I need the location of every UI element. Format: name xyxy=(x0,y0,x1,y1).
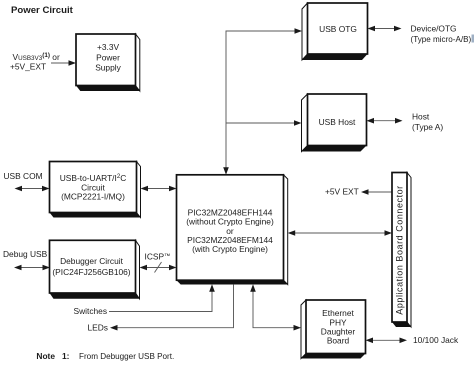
svg-text:Power Circuit: Power Circuit xyxy=(11,5,74,16)
arrowhead toward USB OTG xyxy=(368,26,376,32)
svg-text:Device/OTG: Device/OTG xyxy=(411,24,457,34)
svg-text:LEDs: LEDs xyxy=(88,323,108,333)
svg-text:USB OTG: USB OTG xyxy=(319,24,357,34)
svg-text:Debug USB: Debug USB xyxy=(3,249,48,259)
svg-text:10/100 Jack: 10/100 Jack xyxy=(413,335,459,345)
svg-text:Application Board Connector: Application Board Connector xyxy=(394,185,404,314)
block: +3.3V Power Supply xyxy=(76,34,140,91)
svg-text:VUSB3V3(1) or: VUSB3V3(1) or xyxy=(13,52,60,62)
svg-text:USB Host: USB Host xyxy=(319,117,356,127)
wire: trunk from MCU top to USB OTG / USB Host xyxy=(226,31,296,168)
arrowhead up into MCU bottom (ethernet) xyxy=(250,284,256,292)
block: Application Board Connector xyxy=(392,173,411,328)
arrowhead into MCU left xyxy=(169,186,177,192)
wire: MCU to Application Board Connector xyxy=(293,232,387,234)
svg-text:Debugger Circuit: Debugger Circuit xyxy=(60,256,124,266)
block: Debugger Circuit (PIC24FJ256GB106) xyxy=(50,240,140,298)
svg-text:Switches: Switches xyxy=(74,306,108,316)
wire: USB Host to Host connector xyxy=(372,120,397,122)
svg-text:Board: Board xyxy=(327,336,350,346)
wire: input to power supply xyxy=(51,62,70,64)
wire: UART circuit to MCU xyxy=(146,188,171,190)
wire: LEDs from MCU bottom xyxy=(116,284,234,328)
note: Note 1: From Debugger USB Port. xyxy=(36,351,174,361)
svg-text:(Type A): (Type A) xyxy=(412,122,443,132)
arrowhead into MCU left lower xyxy=(169,265,177,271)
label: Device/OTG (Type micro-A/B) xyxy=(411,24,474,44)
wire: MCU to Ethernet PHY board xyxy=(253,291,296,328)
arrowhead toward USB COM xyxy=(15,186,23,192)
arrowhead into Ethernet PHY left xyxy=(294,325,302,331)
svg-text:Power: Power xyxy=(96,52,120,62)
wire: ICSP bus debugger to MCU xyxy=(145,262,171,273)
arrowhead toward MCU right xyxy=(288,230,296,236)
svg-text:(PIC24FJ256GB106): (PIC24FJ256GB106) xyxy=(52,267,130,277)
block: USB-to-UART/I2C Circuit (MCP2221-I/MQ) xyxy=(50,162,141,218)
block: MCU PIC32MZ2048EFH144 / PIC32MZ2048EFM144 xyxy=(177,175,288,285)
wire: +5V EXT from connector xyxy=(366,191,392,193)
wire: Ethernet PHY to 10/100 Jack xyxy=(371,339,402,341)
arrowhead down into MCU top xyxy=(223,167,229,175)
svg-text:ICSP™: ICSP™ xyxy=(145,252,171,262)
arrowhead toward 10/100 Jack label xyxy=(400,338,408,344)
svg-text:+5V_EXT: +5V_EXT xyxy=(10,62,46,72)
label: Host (Type A) xyxy=(412,112,443,132)
block: USB Host xyxy=(302,94,367,152)
arrowhead toward +5V EXT label xyxy=(361,189,369,195)
wire: Switches to MCU bottom xyxy=(109,291,212,312)
arrowhead toward LEDs label xyxy=(110,325,118,331)
label: VUSB3V3(1) or / +5V_EXT xyxy=(10,52,60,72)
svg-text:Note: Note xyxy=(36,351,55,361)
block: USB OTG xyxy=(302,3,368,60)
arrowhead into connector xyxy=(385,230,393,236)
arrowhead into USB Host xyxy=(294,120,302,126)
block: Ethernet PHY Daughter Board xyxy=(301,300,366,359)
svg-text:(MCP2221-I/MQ): (MCP2221-I/MQ) xyxy=(61,192,125,202)
arrowhead into UART circuit xyxy=(42,186,50,192)
svg-text:1:: 1: xyxy=(62,351,69,361)
arrowhead toward Host label xyxy=(395,118,403,124)
arrowhead into power supply xyxy=(69,60,77,66)
wire: Debug USB to Debugger circuit xyxy=(20,267,45,269)
svg-text:+3.3V: +3.3V xyxy=(97,42,120,52)
arrowhead toward USB Host xyxy=(367,118,375,124)
svg-text:From Debugger USB Port.: From Debugger USB Port. xyxy=(79,352,174,361)
arrowhead into Debugger circuit xyxy=(43,265,51,271)
svg-text:+5V EXT: +5V EXT xyxy=(325,187,359,197)
arrowhead toward Device/OTG label xyxy=(394,26,402,32)
arrowhead up into MCU bottom (switches) xyxy=(209,284,215,292)
arrowhead toward Ethernet PHY xyxy=(366,338,374,344)
svg-text:Host: Host xyxy=(412,112,430,122)
svg-text:(Type micro-A/B): (Type micro-A/B) xyxy=(411,35,472,44)
arrowhead toward Debug USB xyxy=(14,265,22,271)
wire: USB COM to UART circuit xyxy=(20,188,44,190)
svg-text:(with Crypto Engine): (with Crypto Engine) xyxy=(192,244,268,254)
svg-text:USB COM: USB COM xyxy=(4,171,43,181)
arrowhead toward Debugger circuit xyxy=(140,265,148,271)
wire: USB OTG to Device/OTG connector xyxy=(373,28,396,30)
svg-text:Supply: Supply xyxy=(95,62,121,72)
arrowhead into USB OTG xyxy=(295,28,303,34)
arrowhead toward UART circuit xyxy=(141,186,149,192)
